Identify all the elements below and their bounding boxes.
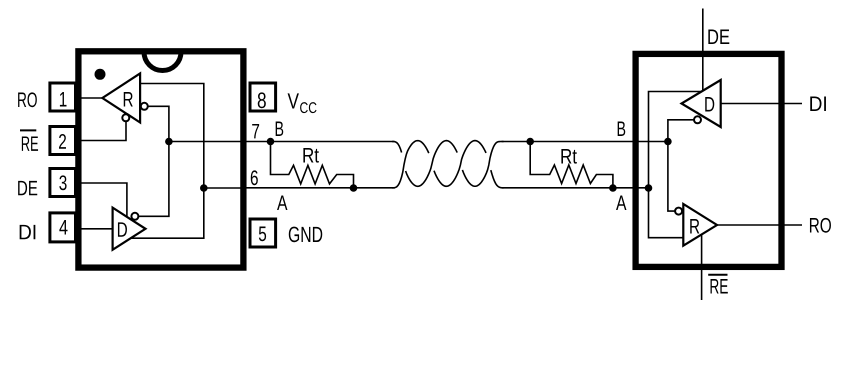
cable strand A: exit segment [491,170,504,188]
pin 8 box [250,83,276,111]
pin 2 number [59,134,66,149]
label A (right) [616,196,626,210]
cable strand B: exit segment [462,142,503,187]
resistor Rt1 (left termination) [271,142,354,189]
wire pin3 to D1 enable [82,183,127,217]
cable strand A: middle segment [434,141,486,187]
wire bus B right segment [502,141,668,143]
label B (left) [276,122,284,136]
pin 2 box [50,127,76,155]
pin 8 number [258,92,266,108]
label Vcc (pin8) [288,93,299,108]
label 7 [252,124,259,138]
IC U1 notch [144,52,181,71]
label /RE (right) [711,279,728,293]
driver D2 triangle (right box) [682,80,721,127]
pin 1 number [60,92,67,106]
transceiver U2 body (right box) [636,54,782,267]
cable strand B: middle segment [406,141,458,187]
wire DI output [721,103,802,105]
wire R1 bubble to B net vertical [138,106,169,216]
pin 3 number [59,175,66,190]
label DI (pin4) [20,225,36,239]
pin 1 box [50,83,76,111]
label DE (right) [708,30,729,44]
label RO (right) [810,218,831,233]
cable strand A: entry segment [392,141,429,188]
wire bus A right segment [502,187,649,189]
IC U1 pin-1 marker dot [95,69,106,80]
node A junction (left IC internal) [200,184,208,192]
node Rt2 to A [609,184,617,192]
label B (right) [618,122,626,136]
pin 5 box [250,219,276,247]
driver D2 letter [705,97,714,111]
node Rt1 to A [350,184,358,192]
pin 4 box [50,213,76,242]
IC U1 body (left transceiver) [78,51,243,267]
label /RE (pin2) [22,136,38,150]
label RO (pin1) [18,92,37,107]
label Rt (right) [561,149,576,164]
label Rt (left) [303,148,318,163]
node B junction (U2) [664,138,672,146]
wire bus B left segment [247,141,395,143]
label DE (pin3) [18,181,37,195]
label GND (pin5) [289,227,322,243]
node A junction (U2) [645,184,653,192]
wire D1 inverted output to A junction [131,188,204,238]
wire DE (right) [702,9,704,92]
resistor Rt2 (right termination) [530,142,613,189]
wire B net inside U2 [668,120,694,211]
pin 5 number [259,227,266,242]
receiver R1 triangle (left IC) [102,73,140,122]
pin 3 box [50,169,76,197]
receiver R2 letter [690,219,699,233]
bubble D2 inverted output (bottom edge) [694,116,701,123]
bubble R2 inverting input (left edge) [675,208,682,215]
wire pin4 to D1 input [82,228,113,230]
receiver R1 letter [124,92,133,106]
wire A junction to pin 6 [204,187,247,189]
bubble D1 inverted output (top edge) [131,213,138,220]
wire R1 input A net [140,84,204,189]
node B junction (left IC internal) [165,138,173,146]
wire B junction to pin 7 [169,141,247,143]
node B to Rt1 [267,138,275,146]
bubble R1 input (right edge) [141,103,148,110]
wire pin2 to R1 enable bubble [82,121,127,141]
bubble R1 enable (bottom edge) [122,114,129,121]
label DI (right) [810,97,826,111]
node B to Rt2 [526,138,534,146]
label 6 [251,170,258,185]
cable strand B: entry segment [392,142,402,153]
wire A net inside U2 [649,92,703,238]
driver D1 letter [118,222,127,236]
driver D1 triangle (left IC) [113,208,146,250]
wire pin1 to R1 output [82,97,103,99]
wire RO output [717,224,802,226]
pin 4 number [59,220,67,234]
label A (left) [277,196,287,210]
receiver R2 triangle (right box) [683,204,717,246]
wire bus A left segment [247,187,396,189]
wire /RE (right) [701,235,703,301]
